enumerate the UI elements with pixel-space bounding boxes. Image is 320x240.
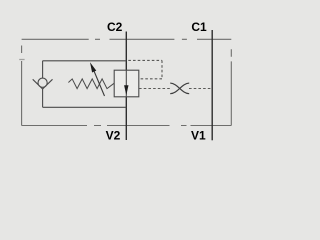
svg-text:C1: C1 xyxy=(191,20,207,34)
adjustment arrow shaft xyxy=(94,72,104,97)
left edge xyxy=(21,46,23,126)
bottom edge xyxy=(22,125,232,127)
relief valve flow line xyxy=(125,70,127,97)
pilot line from C2 (dotted, over the top) xyxy=(128,60,162,78)
spring xyxy=(68,79,114,89)
adjustment arrowhead xyxy=(90,62,96,72)
pilot line from C1 (dotted) xyxy=(139,88,212,90)
wire: C1-V1 through line xyxy=(211,30,213,140)
svg-text:V2: V2 xyxy=(106,129,121,143)
check valve CV1: ball xyxy=(38,78,47,87)
relief valve flow arrowhead (down) xyxy=(124,85,128,95)
relief valve body (square) xyxy=(114,70,139,97)
stray short dash left of boundary xyxy=(19,59,24,61)
orifice / restrictor X xyxy=(170,83,189,94)
right edge xyxy=(230,49,232,125)
wire: check branch bottom xyxy=(43,106,127,108)
svg-text:V1: V1 xyxy=(191,129,206,143)
valve enclosure boundary (dashed box) xyxy=(22,39,232,125)
svg-text:C2: C2 xyxy=(107,20,123,34)
wire: check branch vertical xyxy=(42,61,44,108)
wire: check branch top xyxy=(43,60,127,62)
wire: V2 port line xyxy=(125,97,127,140)
wire: C2 port line xyxy=(125,32,127,71)
top edge xyxy=(22,38,232,40)
check valve CV1: seat xyxy=(33,79,53,89)
